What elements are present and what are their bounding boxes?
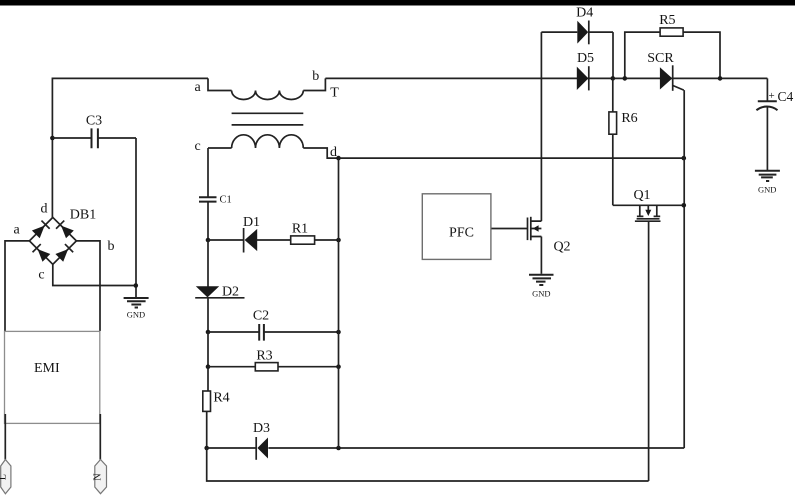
svg-text:c: c: [194, 139, 200, 154]
wire C3 to ground node: [135, 138, 137, 297]
wire EMI to terminal L: [4, 414, 6, 460]
diode D5: [577, 51, 594, 90]
capacitor C3: [52, 114, 136, 149]
svg-text:Q2: Q2: [553, 240, 570, 255]
node R3 row right: [336, 364, 341, 369]
EMI filter block: [5, 331, 100, 423]
svg-text:N: N: [93, 473, 104, 480]
wire R5 right leg: [683, 32, 720, 78]
wire R5 left leg: [625, 32, 660, 78]
resistor R1: [291, 222, 315, 245]
node R3 row left: [206, 364, 211, 369]
svg-text:+: +: [769, 90, 775, 102]
wire D1 to R1: [256, 239, 290, 241]
wire D3 row to gate rail corner: [268, 447, 684, 449]
bridge rectifier DB1: [29, 208, 96, 265]
wire D4 to rail: [612, 32, 614, 78]
svg-text:GND: GND: [532, 289, 550, 299]
svg-text:R5: R5: [659, 13, 675, 28]
diode D4: [541, 6, 613, 45]
svg-text:C3: C3: [86, 114, 102, 129]
node R5 right junction: [718, 76, 723, 81]
wire rail to C4: [766, 78, 768, 101]
thyristor SCR: [647, 51, 684, 91]
svg-text:T: T: [330, 86, 339, 101]
ground at C4: [755, 171, 780, 195]
terminal N: [93, 460, 107, 494]
diode D2: [195, 285, 244, 300]
ground at bridge: [124, 298, 149, 320]
wire R1 to right rail: [315, 239, 339, 241]
wire input top from bridge d to transformer primary a: [52, 78, 208, 217]
svg-text:D5: D5: [577, 51, 594, 66]
svg-text:PFC: PFC: [449, 226, 474, 241]
wire EMI to terminal N: [99, 414, 101, 460]
wire PFC to Q2 gate: [492, 228, 528, 230]
resistor R6: [609, 78, 638, 205]
svg-text:D3: D3: [253, 421, 270, 436]
wire SCR gate rail: [683, 90, 685, 448]
svg-text:EMI: EMI: [34, 361, 60, 376]
transformer T: [208, 78, 339, 158]
wire Q2 drain to D4 row: [540, 32, 542, 221]
svg-text:R6: R6: [621, 111, 637, 126]
svg-text:b: b: [312, 69, 319, 84]
node d rail meets gate rail: [682, 156, 687, 161]
wire D1 row left segment: [208, 239, 244, 241]
resistor R5: [659, 13, 683, 36]
svg-text:SCR: SCR: [647, 51, 674, 66]
wire bridge c to ground junction: [53, 264, 136, 285]
wire d rail to gate rail: [339, 157, 684, 159]
node Q1 top rail junction: [682, 203, 687, 208]
node d junction: [336, 156, 341, 161]
wire R4 to D3 node: [206, 411, 208, 448]
svg-text:b: b: [108, 239, 115, 254]
node ground junction: [134, 283, 139, 288]
capacitor C1: [199, 195, 232, 206]
wire D2 to C2 node: [207, 298, 209, 333]
node C3 tap junction: [50, 136, 55, 141]
wire C4 to ground: [766, 108, 768, 171]
resistor R4: [203, 391, 230, 412]
capacitor C2: [208, 309, 339, 341]
node D1 row left: [206, 238, 211, 243]
node R6 top junction: [611, 76, 616, 81]
svg-text:D2: D2: [222, 285, 239, 300]
diode D1: [243, 215, 260, 253]
svg-text:Q1: Q1: [633, 188, 650, 203]
node D1 row right: [336, 238, 341, 243]
svg-text:C4: C4: [778, 89, 794, 104]
node D3 row left: [204, 446, 209, 451]
diode D3: [253, 421, 270, 460]
wire C1 to D1 node: [207, 202, 209, 240]
resistor R3: [208, 349, 339, 371]
svg-text:D1: D1: [243, 215, 260, 230]
node D3 row right: [336, 446, 341, 451]
wire secondary c down to C1: [207, 148, 209, 197]
node C2 row left: [206, 330, 211, 335]
terminal L: [0, 460, 11, 494]
svg-text:c: c: [38, 268, 44, 283]
ground at Q2: [529, 275, 554, 299]
wire right secondary rail: [338, 158, 340, 448]
svg-text:a: a: [13, 223, 20, 238]
wire D3 row left segment: [207, 447, 257, 449]
wire R3 node to R4: [207, 367, 209, 391]
wire bridge a to EMI: [5, 241, 29, 331]
svg-text:d: d: [330, 145, 337, 160]
node C2 row right: [336, 330, 341, 335]
transistor Q2: [528, 217, 571, 255]
capacitor C4: [756, 89, 793, 110]
svg-text:d: d: [41, 202, 48, 217]
svg-text:C2: C2: [253, 309, 269, 324]
svg-text:D4: D4: [576, 6, 593, 21]
svg-text:a: a: [194, 80, 201, 95]
svg-text:DB1: DB1: [70, 208, 96, 223]
block PFC: [422, 194, 491, 260]
wire Q2 source to ground: [540, 237, 542, 274]
wire D1 node to D2: [207, 240, 209, 287]
svg-text:GND: GND: [127, 310, 145, 320]
transistor Q1: [613, 188, 684, 221]
wire main rail from b to C4 corner: [325, 77, 767, 79]
wire bottom return: [207, 448, 649, 481]
svg-text:R1: R1: [292, 222, 308, 237]
wire Q1 gate down: [648, 221, 650, 481]
wire C2 node to R3 node: [207, 332, 209, 367]
svg-text:R3: R3: [256, 349, 272, 364]
node R5 left junction: [623, 76, 628, 81]
svg-text:GND: GND: [758, 185, 776, 195]
svg-text:R4: R4: [213, 391, 229, 406]
svg-text:L: L: [0, 474, 9, 480]
svg-text:C1: C1: [220, 195, 232, 206]
wire bridge b to EMI: [76, 241, 100, 331]
